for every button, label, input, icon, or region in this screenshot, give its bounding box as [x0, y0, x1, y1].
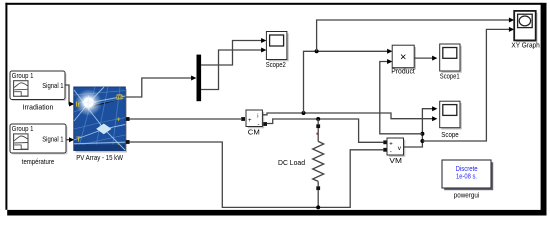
svg-text:PV Array - 15 kW: PV Array - 15 kW [76, 153, 123, 162]
svg-text:Product: Product [391, 66, 415, 75]
demux [197, 55, 202, 102]
wire PV m -> demux [125, 76, 196, 98]
VM block (voltage measurement) [387, 138, 405, 157]
scope Scope2 [266, 32, 288, 62]
svg-text:Scope: Scope [441, 130, 458, 139]
svg-text:Group 1: Group 1 [12, 124, 34, 133]
svg-text:VM: VM [389, 156, 402, 165]
wire CM - -> DC load / VM + [267, 119, 384, 142]
signal builder Irradiation [10, 71, 67, 101]
DC Load R1 [313, 124, 324, 207]
wire i -> XY Graph in1 [317, 20, 511, 51]
svg-text:Irradiation: Irradiation [23, 103, 54, 112]
signal builder temperature [10, 124, 68, 155]
wire VM v -> Scope in1 [404, 109, 434, 147]
wire temperature -> PV T [66, 137, 74, 142]
wire Product -> Scope1 [414, 57, 433, 59]
wire demux out2 -> Scope2 in2 [201, 50, 263, 90]
scope Scope1 [440, 44, 462, 73]
wire v -> Product in2 [380, 62, 423, 134]
node junction v2 [420, 139, 424, 143]
glare rays [74, 87, 125, 150]
port square CM left [241, 117, 245, 121]
node junction i [302, 111, 306, 115]
PV Array block U1 [74, 87, 127, 153]
svg-text:T: T [76, 134, 81, 143]
svg-text:Scope2: Scope2 [266, 60, 286, 69]
port square VM - [383, 148, 387, 152]
svg-text:XY Graph: XY Graph [511, 41, 539, 50]
wire v -> XY Graph in2 [422, 29, 510, 141]
svg-text:×: × [400, 52, 406, 64]
wire i -> Product in1 [304, 51, 389, 113]
svg-text:Ir: Ir [76, 102, 81, 109]
svg-text:Signal 1: Signal 1 [42, 135, 63, 144]
wire CM i -> Scope in2 (current signal) [262, 113, 433, 119]
scope Scope [440, 101, 462, 129]
node junction i2 [315, 49, 319, 53]
port square VM + [383, 140, 387, 144]
CM block (current measurement) [246, 110, 264, 128]
XY Graph block [514, 11, 537, 42]
product U2 [392, 45, 416, 69]
wire demux out1 -> Scope2 in1 [201, 41, 263, 66]
svg-text:CM: CM [248, 127, 260, 136]
svg-text:Signal 1: Signal 1 [42, 81, 63, 90]
node junction bus/DC load [316, 205, 320, 209]
svg-text:Scope1: Scope1 [440, 72, 460, 81]
wire Irradiation -> PV Ir [65, 85, 74, 107]
wire PV - -> bus -> VM - [130, 142, 384, 207]
svg-text:température: température [22, 157, 54, 166]
svg-text:m: m [117, 95, 122, 101]
svg-text:1e-08 s.: 1e-08 s. [456, 171, 477, 180]
svg-text:+: + [116, 116, 120, 123]
diamond flare [96, 124, 111, 135]
svg-text:i: i [257, 113, 258, 119]
node junction DC top [316, 117, 320, 121]
svg-text:powergui: powergui [454, 191, 480, 200]
svg-text:+: + [389, 142, 393, 148]
svg-text:Group 1: Group 1 [12, 71, 34, 80]
node junction v1 [420, 132, 424, 136]
port labels [76, 94, 123, 148]
svg-text:DC Load: DC Load [278, 158, 305, 167]
svg-text:-: - [390, 150, 392, 156]
port square PV + [126, 117, 130, 121]
powergui block [442, 160, 493, 190]
wire PV + -> CM [130, 118, 241, 120]
port square PV - [126, 140, 130, 144]
wire junction -> DC load [317, 119, 319, 124]
port square CM right-bottom [263, 122, 267, 126]
svg-text:+: + [248, 118, 252, 124]
